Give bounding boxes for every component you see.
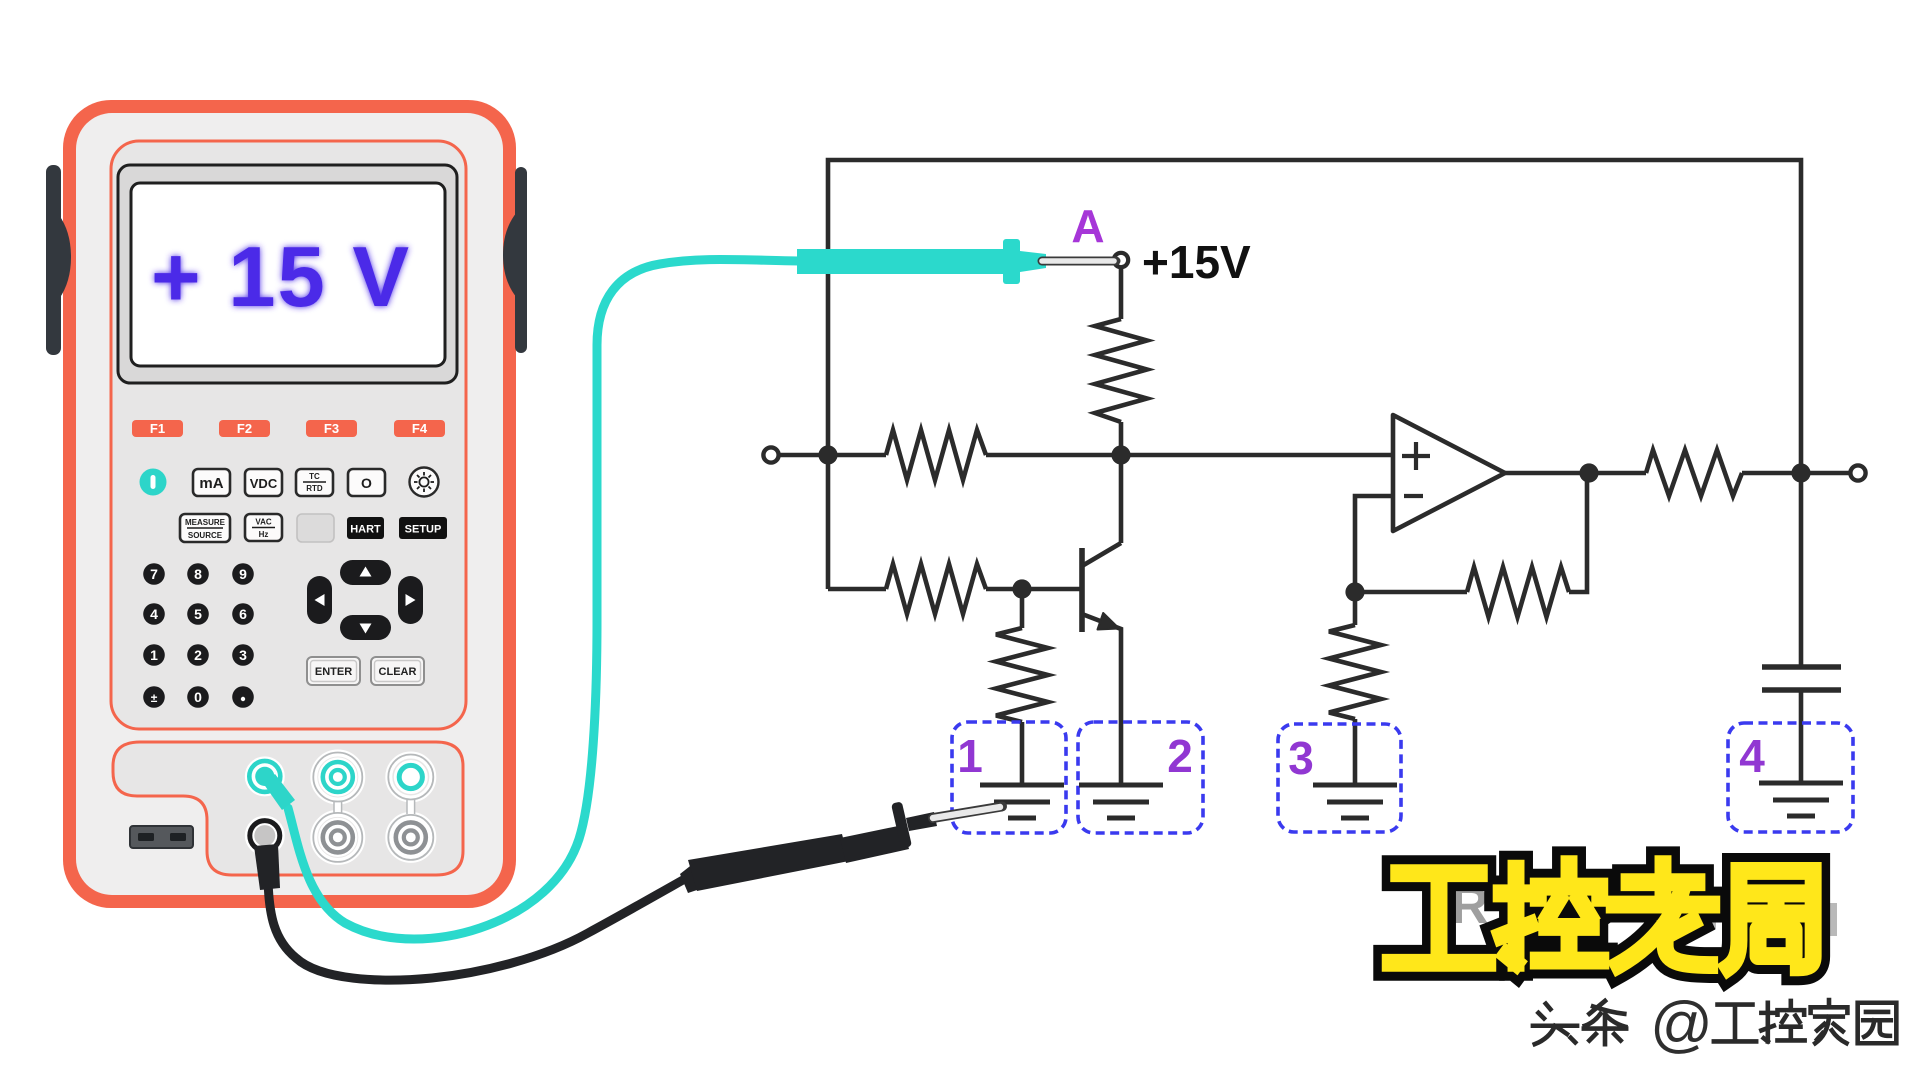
cyan probe handle [797,239,1046,284]
byline char gong2 [1714,1005,1756,1042]
wire node A stem [1119,267,1124,319]
svg-text:O: O [361,475,372,491]
transistor Q1 [1079,548,1085,632]
bottom middle jack [318,818,357,857]
black probe handle [680,801,937,893]
VDC button [245,469,282,496]
title char kong (outline) [1501,864,1601,963]
resistor R7 [1646,450,1742,496]
svg-text:RTD: RTD [306,484,323,493]
cyan probe tip [1042,257,1116,266]
arrow pad down [340,615,391,640]
arrow pad left [307,576,332,624]
key 0 [187,686,209,708]
backlight button [410,468,439,497]
svg-text:F3: F3 [324,421,339,436]
svg-text:SETUP: SETUP [405,524,442,536]
byline char tiao [1584,1001,1626,1044]
svg-text:9: 9 [239,566,247,582]
terminal panel outline [113,742,463,875]
key 2 [187,644,209,666]
resistor R3 [886,564,986,614]
bottom right jack [391,818,430,857]
resistor R6 [1329,625,1381,719]
F3 function button [306,420,357,437]
key 1 [143,644,165,666]
svg-text:8: 8 [194,566,202,582]
svg-text:Hz: Hz [259,530,269,539]
svg-text:VDC: VDC [250,476,278,491]
wire R6 to ground 3 [1353,719,1358,785]
screen bezel [118,165,457,383]
calibrator orange body shell [63,100,516,908]
key 7 [143,563,165,585]
numeric keypad [143,563,254,708]
ground 3 [1313,785,1397,818]
calibrator left side grip [46,165,71,355]
wire feedback up to output [1569,473,1587,592]
junction node under R1 [1111,445,1130,464]
capacitor C1 [1762,664,1841,670]
F1 function button [132,420,445,437]
wire junction to R6 [1353,592,1358,625]
SETUP button [399,517,447,539]
svg-text:2: 2 [194,647,202,663]
input terminal [763,447,778,462]
ohm button [348,469,385,496]
black test lead wire [268,876,690,980]
svg-text:4: 4 [1739,730,1765,782]
ENTER button [307,657,424,685]
wire feedback left [1355,590,1467,595]
calibrator gray face [76,113,503,895]
MEASURE/SOURCE button [180,514,447,542]
svg-text:SOURCE: SOURCE [188,531,223,540]
svg-text:+ 15 V: + 15 V [151,230,411,325]
teal source jack [245,756,285,796]
wire junction to R4 [1020,589,1025,628]
wire mid to op-amp [986,453,1393,458]
svg-text:0: 0 [194,689,202,705]
svg-text:3: 3 [239,647,247,663]
ground 2 [1079,785,1163,818]
key 5 [187,603,209,625]
title char gong (yellow) [1390,864,1813,967]
byline char tou [1533,1000,1896,1044]
watermark fragment a [1694,914,1716,929]
wire output terminal [1742,471,1850,476]
calibrator right side grip [503,167,527,353]
svg-text:mA: mA [199,475,223,492]
ground 4 [1759,783,1843,816]
title char kong (yellow) [1501,864,1601,963]
ground 3 box [1278,724,1401,832]
svg-text:6: 6 [239,606,247,622]
svg-text:4: 4 [150,606,158,622]
svg-text:3: 3 [1288,732,1314,784]
HART button [347,517,384,539]
black common jack [245,816,285,856]
TC/RTD button [296,469,333,496]
junction node at left rail mid [818,445,837,464]
key 8 [187,563,209,585]
ground 4 box [1728,723,1853,832]
svg-text:F1: F1 [150,421,165,436]
svg-text:2: 2 [1167,730,1193,782]
wire R3 to base [986,587,1082,592]
jack pair marker middle [313,753,362,862]
output terminal [1850,465,1865,480]
wire right rail to capacitor [1799,473,1804,667]
ground 2 box [1078,722,1203,833]
wire R4 to ground 1 [1020,722,1025,785]
arrow pad up [307,560,423,640]
svg-text:±: ± [151,691,158,705]
byline char kong2 [1761,1001,1804,1041]
keypad panel outline [111,141,466,729]
teal jack plug [263,774,295,810]
svg-text:1: 1 [957,730,983,782]
ground 1 [980,785,1064,818]
key dot [232,686,254,708]
teal test lead wire [288,260,799,940]
resistor R5 [1467,567,1569,617]
junction node at op-amp output [1579,463,1598,482]
top middle jack [318,757,357,796]
title char zhou (outline) [1728,871,1813,967]
svg-text:+15V: +15V [1142,236,1251,288]
node A terminal [1114,253,1128,267]
junction node at minus input [1345,582,1364,601]
wire top rail and side verticals [828,160,1801,589]
resistor R1 [1095,319,1147,422]
svg-text:MEASURE: MEASURE [185,518,226,527]
CLEAR button [371,657,424,685]
power button [140,469,167,496]
top right jack [394,760,428,794]
svg-text:A: A [1071,200,1104,252]
transistor Q1 emitter arrow [1098,613,1120,630]
black jack plug [254,844,280,890]
ground 1 box [952,722,1066,833]
watermark fragment s [1820,903,1837,936]
key 9 [232,563,254,585]
svg-text:7: 7 [150,566,158,582]
blank button [297,514,334,542]
key 4 [143,603,165,625]
byline char yuan [1858,1003,1897,1043]
resistor R4 [996,628,1048,722]
svg-text:@: @ [1650,990,1713,1059]
wire op-amp minus input [1355,496,1393,592]
jack pair marker right [388,755,433,860]
arrow pad right [398,576,423,624]
svg-text:HART: HART [350,524,381,536]
svg-text:1: 1 [150,647,158,663]
VAC/Hz button [245,514,282,541]
LCD screen [131,183,445,366]
svg-text:5: 5 [194,606,202,622]
accessory connector port [130,826,193,848]
byline char jia [1811,1000,1848,1043]
svg-text:VAC: VAC [255,518,272,527]
svg-text:TC: TC [309,472,320,481]
key plus-minus [143,686,165,708]
wire lower left segment [828,587,886,592]
title char lao (yellow) [1614,864,1712,965]
junction node at right rail [1791,463,1810,482]
resistor R2 [886,430,986,480]
wire capacitor to ground 4 [1799,690,1804,783]
svg-text:ENTER: ENTER [315,666,352,678]
F4 function button [394,420,445,437]
title char gong (outline) [1390,864,1813,967]
key 3 [232,644,254,666]
junction node at base divider [1012,579,1031,598]
key 6 [232,603,254,625]
F2 function button [219,420,270,437]
black probe tip [933,807,1002,819]
title char lao (outline) [1614,864,1712,965]
title char zhou (yellow) [1728,871,1813,967]
wire mid input segment [779,453,886,458]
wire op-amp output [1505,471,1646,476]
op-amp U1 [1393,415,1505,531]
svg-text:CLEAR: CLEAR [379,666,417,678]
wire R1 to collector [1119,422,1124,543]
svg-text:F2: F2 [237,421,252,436]
svg-text:F4: F4 [412,421,428,436]
mA button [193,469,385,496]
